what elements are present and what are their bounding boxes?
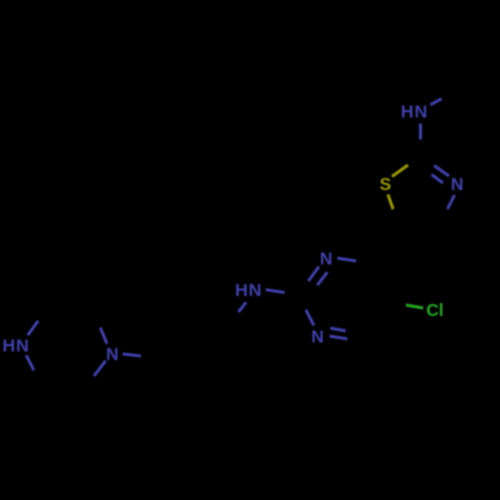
svg-text:N: N	[311, 326, 324, 346]
svg-text:N: N	[451, 174, 464, 194]
svg-text:N: N	[106, 344, 119, 364]
svg-text:Cl: Cl	[426, 300, 443, 320]
svg-text:S: S	[380, 174, 392, 194]
svg-text:HN: HN	[235, 280, 262, 300]
svg-text:N: N	[320, 248, 333, 268]
svg-text:HN: HN	[401, 101, 428, 121]
svg-text:HN: HN	[2, 335, 29, 355]
